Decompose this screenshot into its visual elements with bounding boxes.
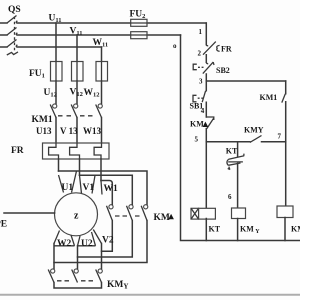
svg-text:KM: KM [190, 120, 204, 129]
svg-text:U1: U1 [62, 183, 74, 193]
svg-text:KT: KT [226, 146, 238, 155]
svg-text:7: 7 [278, 133, 282, 141]
svg-text:W11: W11 [93, 38, 109, 49]
svg-text:FU1: FU1 [29, 69, 45, 80]
svg-text:KMY: KMY [244, 126, 264, 135]
svg-text:W1: W1 [104, 184, 119, 194]
svg-text:KMY: KMY [240, 225, 260, 236]
svg-text:U11: U11 [49, 14, 62, 25]
svg-text:4: 4 [201, 107, 205, 115]
svg-text:W2: W2 [57, 239, 72, 249]
svg-text:KM1: KM1 [291, 225, 300, 234]
svg-text:SB2: SB2 [216, 66, 230, 75]
svg-text:KM1: KM1 [260, 93, 278, 102]
svg-text:U13: U13 [36, 126, 52, 136]
svg-text:W13: W13 [83, 126, 102, 136]
svg-text:V12: V12 [70, 88, 83, 99]
svg-text:V11: V11 [70, 27, 83, 38]
svg-text:FR: FR [221, 45, 232, 54]
svg-text:V1: V1 [83, 183, 95, 193]
svg-text:W12: W12 [84, 88, 100, 99]
svg-text:3: 3 [199, 78, 203, 86]
svg-text:z: z [74, 211, 79, 222]
svg-text:o: o [173, 42, 177, 50]
svg-text:KM1: KM1 [32, 115, 53, 125]
svg-text:U2: U2 [81, 239, 93, 249]
svg-text:KM: KM [154, 213, 170, 223]
svg-text:QS: QS [8, 5, 21, 15]
svg-text:FR: FR [11, 146, 24, 156]
svg-text:6: 6 [228, 193, 232, 201]
svg-text:V2: V2 [102, 236, 114, 246]
svg-text:U12: U12 [44, 88, 57, 99]
svg-text:2: 2 [198, 50, 202, 58]
svg-text:5: 5 [195, 136, 199, 144]
svg-text:KMY: KMY [107, 280, 128, 291]
svg-text:KT: KT [209, 225, 221, 234]
svg-text:PE: PE [0, 220, 7, 230]
svg-text:V 13: V 13 [60, 126, 78, 136]
svg-text:1: 1 [199, 28, 203, 36]
svg-text:FU2: FU2 [130, 10, 146, 21]
